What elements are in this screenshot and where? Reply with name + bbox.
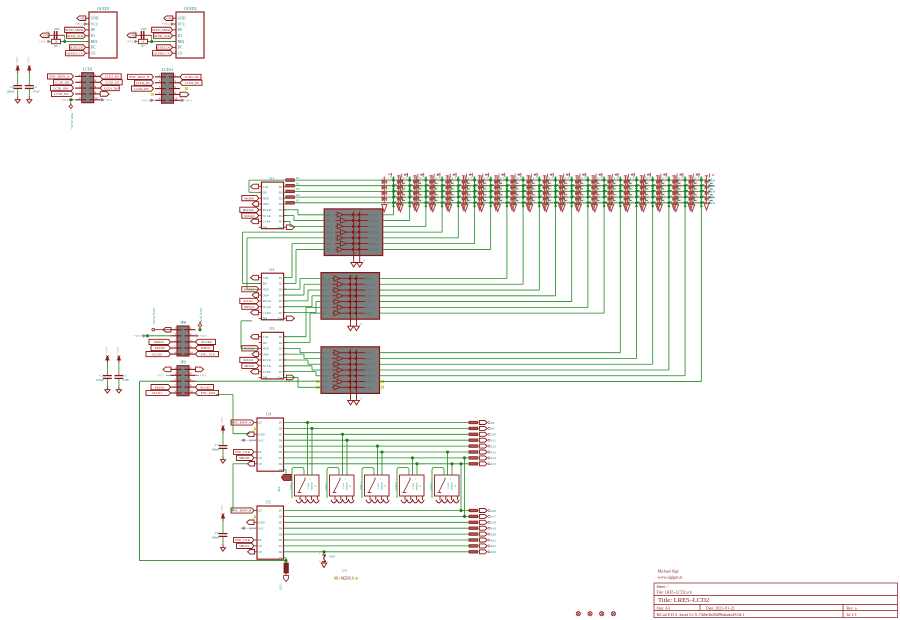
svg-text:D2: D2: [279, 341, 283, 345]
svg-text:LCD1_RW: LCD1_RW: [53, 86, 69, 90]
svg-text:+3V3: +3V3: [157, 374, 164, 377]
global label row R18: [478, 521, 480, 523]
resistor R22: [469, 545, 478, 548]
gnd arrow U2 row1: [251, 275, 259, 280]
LED matrix right edge labels: [704, 178, 716, 205]
svg-text:OUT_5: OUT_5: [369, 236, 379, 240]
svg-text:U3: U3: [269, 326, 274, 331]
svg-text:R12: R12: [490, 444, 496, 448]
wire LED column 4 to driver output: [441, 207, 443, 233]
svg-text:SCLK0: SCLK0: [244, 214, 254, 218]
global label ENC_CLK: [234, 449, 255, 454]
global label row R21: [478, 539, 480, 541]
global label LCDe1 pin1: [128, 74, 154, 79]
svg-text:D2: D2: [279, 282, 283, 286]
svg-text:OUT_2: OUT_2: [369, 219, 379, 223]
wire LED column 17 to driver output: [652, 207, 654, 365]
svg-text:OUT_3: OUT_3: [366, 288, 376, 292]
resistor R9: [469, 427, 478, 430]
svg-text:OUT_1: OUT_1: [366, 351, 376, 355]
wire U2 D6 to U7 IN4: [284, 306, 312, 308]
svg-text:D5: D5: [279, 358, 283, 362]
svg-text:OLED1_CS: OLED1_CS: [66, 51, 82, 55]
wire ENC5 A to bus: [447, 452, 449, 475]
vss arrow U3: [286, 375, 294, 380]
svg-text:MOSI0: MOSI0: [244, 196, 254, 200]
wire encoder column to R16 row: [460, 464, 462, 511]
svg-text:R17: R17: [490, 515, 496, 519]
svg-text:Vdd: Vdd: [263, 276, 269, 280]
svg-text:OUT_4: OUT_4: [369, 230, 379, 234]
jumper H1: [322, 550, 325, 553]
shift register U2: [261, 273, 283, 320]
svg-text:OUT_2: OUT_2: [366, 357, 376, 361]
wire U2 D5 to U7 IN3: [284, 300, 308, 302]
svg-text:GND: GND: [178, 17, 186, 21]
resistor R18: [469, 521, 478, 524]
wire ENC4 bridge: [397, 468, 409, 499]
svg-text:MISO1: MISO1: [201, 346, 211, 350]
arrow U1 OE: [252, 202, 259, 207]
arrow JP9 pin1: [163, 367, 171, 372]
global label JP8 pin8: [196, 345, 214, 350]
svg-text:U10: U10: [342, 569, 348, 573]
global label JP9 pin10: [196, 390, 219, 395]
svg-text:LCD2_EN: LCD2_EN: [134, 87, 149, 91]
svg-text:R2: R2: [296, 182, 300, 186]
svg-text:R23: R23: [490, 550, 496, 554]
global label ENC_ROW_A: [231, 420, 254, 425]
svg-text:SER: SER: [263, 196, 270, 200]
svg-text:OUT_1: OUT_1: [369, 213, 379, 217]
svg-text:Vss: Vss: [278, 376, 284, 380]
svg-text:IN_6: IN_6: [323, 306, 330, 310]
svg-text:OUT_7: OUT_7: [366, 311, 376, 315]
svg-text:IN_3: IN_3: [323, 362, 330, 366]
no-connect U5: [254, 515, 257, 518]
power +3V3 C7: [222, 428, 224, 433]
svg-text:SHLD1: SHLD1: [239, 544, 250, 548]
svg-text:CLR#: CLR#: [263, 311, 271, 315]
wire JP9 pin6 long net right: [196, 380, 322, 382]
wire U1 D5 to U6 IN1: [284, 209, 298, 211]
svg-text:OLED_MOSI: OLED_MOSI: [152, 28, 171, 32]
svg-text:D7: D7: [279, 370, 283, 374]
svg-text:OUT_3: OUT_3: [369, 224, 379, 228]
svg-text:R8: R8: [490, 421, 494, 425]
svg-text:Rev: a: Rev: a: [847, 606, 857, 610]
LED matrix column 20: [689, 173, 715, 212]
svg-text:100nF: 100nF: [6, 89, 14, 93]
wire U4 D7 bus: [284, 422, 470, 424]
ground C4: [17, 97, 19, 100]
svg-text:D6: D6: [279, 364, 283, 368]
wire chain to U6 IN5: [247, 237, 324, 239]
global label row R15: [478, 463, 480, 465]
ground C3: [106, 387, 108, 390]
svg-text:ENC_ROW_B: ENC_ROW_B: [232, 509, 253, 513]
svg-text:OUT_7: OUT_7: [369, 248, 379, 252]
LED matrix column 8: [494, 173, 520, 212]
wire JP9 pin5 long net: [140, 380, 171, 382]
svg-text:Size: A3: Size: A3: [657, 606, 670, 610]
mounting hole H3: [588, 612, 592, 616]
svg-text:Cx9: Cx9: [423, 176, 428, 179]
svg-text:SHLD0: SHLD0: [239, 456, 250, 460]
wire U3 D4 to U8 IN2: [284, 353, 304, 355]
shift register U4: [257, 418, 284, 471]
capacitor C2 47uF: [28, 73, 30, 85]
wire R1 jog from U1 D0: [249, 179, 286, 181]
svg-text:MISO1: MISO1: [244, 305, 254, 309]
svg-text:D1: D1: [279, 185, 283, 189]
svg-text:Vdd: Vdd: [263, 185, 269, 189]
ground C8: [222, 545, 224, 548]
wire U5 D0 bus: [284, 551, 470, 553]
wire encoder column to R17 row: [464, 458, 466, 517]
svg-text:+3V3: +3V3: [162, 22, 169, 26]
wire LED column 5 to driver output: [457, 207, 459, 238]
svg-text:D4: D4: [279, 293, 283, 297]
wire U4 D4 bus: [284, 439, 470, 441]
svg-text:+3V3: +3V3: [200, 374, 207, 377]
svg-text:+3V3: +3V3: [200, 335, 207, 338]
LED matrix column 4: [429, 173, 455, 212]
rotary encoder ENC2: [324, 475, 354, 503]
wire U3 D5 to U8 IN3: [284, 359, 308, 361]
svg-text:IN_5: IN_5: [323, 374, 330, 378]
svg-text:PWR_FLAG: PWR_FLAG: [152, 308, 156, 325]
wire row bus R2: [294, 185, 706, 187]
wire U4 D5 bus: [284, 433, 470, 435]
svg-text:IN_5: IN_5: [326, 236, 333, 240]
wire U4 D0 bus: [284, 463, 470, 465]
title block text: [657, 569, 857, 617]
svg-text:IN_7: IN_7: [323, 385, 330, 389]
LED matrix column 12: [559, 173, 585, 212]
svg-text:D7: D7: [279, 220, 283, 224]
svg-text:DC: DC: [91, 46, 97, 50]
global label row R12: [478, 445, 480, 447]
wire ENC2 bridge: [327, 468, 339, 499]
capacitor C4 100nF: [17, 73, 19, 85]
global label SHLD1: [237, 543, 255, 548]
svg-text:Cx9: Cx9: [552, 176, 557, 179]
shift register U1: [261, 182, 283, 229]
wire U4 D3 bus: [284, 445, 470, 447]
LED matrix column 6: [462, 173, 488, 212]
wire RES R6: [61, 41, 90, 43]
junction LCD1: [69, 98, 72, 101]
svg-text:Dx19: Dx19: [709, 178, 716, 182]
svg-text:Q7: Q7: [258, 421, 262, 425]
wire U1 D6 to U6 IN2: [284, 215, 294, 217]
svg-text:KiCad E.D.A. kicad 5.1.9–73d0: KiCad E.D.A. kicad 5.1.9–73d0e3b20d88ubu…: [657, 613, 745, 617]
svg-text:LCD1: LCD1: [83, 67, 93, 72]
wire LED column 16 to driver output: [636, 207, 638, 359]
global label MOSI0: [242, 196, 259, 201]
wire U3 D2 to U7 IN7: [284, 342, 310, 344]
svg-text:100nF: 100nF: [211, 447, 219, 451]
svg-text:D7: D7: [279, 421, 283, 425]
svg-text:D5: D5: [279, 521, 283, 525]
power flag LCD1: [70, 102, 72, 104]
svg-text:SER: SER: [263, 287, 270, 291]
junction U5 output bottom: [284, 557, 287, 559]
power +3V3 U4: [241, 439, 246, 441]
wire LED column 15 to driver output: [619, 207, 621, 353]
LED matrix column 9: [510, 173, 536, 212]
resistor R12: [469, 445, 478, 448]
global label LCD1 pin6: [100, 86, 119, 91]
capacitor C3 100nF: [106, 363, 108, 375]
global label SCLK0: [242, 213, 259, 218]
svg-text:R11: R11: [490, 438, 496, 442]
svg-text:R21: R21: [490, 538, 496, 542]
svg-text:RES: RES: [178, 40, 185, 44]
svg-text:Cx9: Cx9: [471, 176, 476, 179]
gnd arrow U1 row7: [251, 219, 259, 224]
svg-text:Cx9: Cx9: [666, 176, 671, 179]
power +3V3 LCD1 pin10: [100, 99, 104, 101]
ground C7: [222, 457, 224, 460]
svg-text:R24: R24: [278, 486, 281, 491]
svg-text:LCD1_EN: LCD1_EN: [54, 92, 69, 96]
wire U1 output to R2: [285, 186, 288, 188]
svg-text:ENC2: ENC2: [324, 482, 328, 490]
wire ENC1 A to bus: [307, 423, 309, 476]
svg-text:IN_1: IN_1: [323, 277, 330, 281]
svg-text:OLED_MOSI: OLED_MOSI: [65, 28, 84, 32]
svg-text:Dx19: Dx19: [709, 190, 716, 194]
svg-text:Cx9: Cx9: [536, 176, 541, 179]
global label RCLK2: [242, 346, 259, 351]
svg-text:IN_1: IN_1: [326, 213, 333, 217]
svg-text:Michael Sigl: Michael Sigl: [658, 569, 680, 574]
global label OLED_MOSI: [152, 27, 173, 32]
svg-text:OLED_SCK: OLED_SCK: [67, 34, 84, 38]
connector JP9: [177, 366, 189, 396]
global label LCDe1 pin4: [180, 80, 202, 85]
svg-text:CLR#: CLR#: [263, 370, 271, 374]
svg-text:RCLK0: RCLK0: [201, 340, 212, 344]
svg-text:D0: D0: [91, 28, 96, 32]
svg-text:IN_4: IN_4: [323, 294, 330, 298]
wire LED column 18 to driver output: [668, 207, 670, 371]
svg-text:R3: R3: [296, 187, 300, 191]
svg-text:D2: D2: [279, 191, 283, 195]
svg-text:File: LRE5–LCD2.sch: File: LRE5–LCD2.sch: [657, 591, 692, 595]
svg-text:Cx9: Cx9: [487, 176, 492, 179]
svg-text:SCLK: SCLK: [263, 364, 272, 368]
resistor R7 1K: [139, 39, 148, 43]
wire U4 D1 bus: [284, 457, 470, 459]
wire U1 output to R5: [285, 203, 288, 205]
wire LED column 12 to driver output: [571, 207, 573, 302]
svg-text:D3: D3: [279, 444, 283, 448]
svg-text:OLED2: OLED2: [184, 6, 197, 11]
resistor R13: [469, 451, 478, 454]
svg-text:+3V3: +3V3: [61, 98, 68, 102]
global label RCLK1: [242, 287, 259, 292]
wire LED column 11 to driver output: [555, 207, 557, 296]
wire U2 D2 to U6 IN7: [284, 282, 296, 284]
global label OLED_SCK: [154, 33, 173, 38]
svg-text:R20: R20: [490, 532, 496, 536]
svg-text:D4: D4: [279, 526, 283, 530]
svg-text:C2: C2: [33, 85, 37, 89]
power +3V3 C3: [106, 358, 108, 363]
svg-text:OLED_DC: OLED_DC: [69, 46, 85, 50]
resistor R25: [285, 561, 287, 563]
svg-text:C4: C4: [10, 85, 14, 89]
svg-text:R18: R18: [490, 521, 496, 525]
svg-text:SCLK: SCLK: [263, 305, 272, 309]
wire RES R7: [148, 41, 177, 43]
vss arrow U1: [286, 225, 294, 230]
svg-text:Sheet: /: Sheet: /: [657, 585, 670, 589]
svg-text:Cx9: Cx9: [633, 176, 638, 179]
svg-text:D3: D3: [279, 287, 283, 291]
svg-text:GND: GND: [167, 17, 173, 20]
resistor R19: [469, 527, 478, 530]
power +3V3 U5: [241, 527, 246, 529]
global label RCLK0: [240, 207, 259, 212]
svg-text:ENC_DAT: ENC_DAT: [201, 391, 216, 395]
svg-text:OUT_6: OUT_6: [369, 242, 379, 246]
darlington array U7: [321, 273, 380, 320]
wire LED column 2 to driver output: [409, 207, 411, 221]
svg-text:CS: CS: [178, 52, 183, 56]
svg-text:COM: COM: [352, 369, 355, 376]
svg-text:D6: D6: [279, 305, 283, 309]
wire ENC5 bridge: [432, 468, 444, 499]
svg-text:D2: D2: [279, 538, 283, 542]
power +3V3 JP9 pin4: [196, 374, 200, 376]
svg-text:VCC: VCC: [91, 22, 99, 26]
gnd arrow U1 row1: [251, 184, 259, 189]
svg-text:D3: D3: [279, 196, 283, 200]
resistor R3: [286, 190, 295, 193]
svg-text:Dx19: Dx19: [709, 184, 716, 188]
rotary encoder ENC4: [394, 475, 424, 503]
svg-text:IN_7: IN_7: [326, 248, 333, 252]
global label SHLD0: [237, 455, 255, 460]
svg-text:OUT_6: OUT_6: [366, 380, 376, 384]
svg-text:R13: R13: [490, 450, 496, 454]
gnd arrows U7: [348, 326, 354, 331]
wire ENC3 B to bus: [381, 452, 383, 475]
arrow U5 CE: [248, 550, 255, 555]
svg-text:R22: R22: [490, 544, 496, 548]
svg-text:D1: D1: [279, 335, 283, 339]
global label OLED_DC: [157, 45, 173, 50]
global label JP8 pin6: [196, 339, 216, 344]
svg-text:Vss: Vss: [278, 225, 284, 229]
svg-text:C3: C3: [99, 373, 103, 377]
svg-text:SER: SER: [263, 347, 270, 351]
wire row bus R3: [294, 190, 706, 192]
wire ENC5 B to bus: [451, 464, 453, 475]
svg-text:Dx19: Dx19: [709, 195, 716, 199]
svg-text:PE: PE: [258, 450, 262, 454]
svg-text:Cx9: Cx9: [455, 176, 460, 179]
arrow label R25 net: [284, 576, 289, 582]
wire U3 Vss to U8 IN7: [284, 376, 298, 378]
svg-text:LCD2_RS: LCD2_RS: [136, 81, 150, 85]
svg-text:IN_3: IN_3: [326, 224, 333, 228]
svg-text:LCD1_D6: LCD1_D6: [104, 86, 118, 90]
power +3V3 C8: [222, 516, 224, 521]
svg-text:R10: R10: [490, 433, 496, 437]
svg-text:JP8: JP8: [180, 320, 186, 325]
arrow U4 CE: [248, 462, 255, 467]
resistor R8: [469, 421, 478, 424]
svg-text:Cx9: Cx9: [520, 176, 525, 179]
svg-text:OUT_3: OUT_3: [366, 362, 376, 366]
svg-text:VCC: VCC: [178, 22, 186, 26]
wire LED column 8 to driver output: [506, 207, 508, 279]
svg-text:DB: DB: [263, 376, 268, 380]
svg-text:IN_3: IN_3: [323, 288, 330, 292]
svg-text:D0: D0: [263, 191, 267, 195]
global label LCD1 pin2: [100, 74, 121, 79]
power +3V3 C4: [17, 68, 19, 73]
svg-text:Id: 1/1: Id: 1/1: [847, 613, 857, 617]
svg-text:ENC_ROW_A: ENC_ROW_A: [231, 421, 252, 425]
svg-text:COM: COM: [352, 295, 355, 302]
global label LCD1 pin5: [51, 86, 74, 91]
svg-text:U2: U2: [269, 267, 274, 272]
global label MISO1: [242, 304, 259, 309]
svg-text:VCC: VCC: [258, 438, 264, 442]
svg-text:A: A: [380, 478, 382, 481]
wire U5 D1 bus: [284, 545, 470, 547]
mounting hole H4: [600, 612, 604, 616]
svg-text:R19: R19: [490, 526, 496, 530]
global label row R14: [478, 457, 480, 459]
svg-text:R16: R16: [490, 509, 496, 513]
svg-text:Cx9: Cx9: [601, 176, 606, 179]
svg-text:JP9: JP9: [180, 360, 186, 365]
global label JP8 pin5: [149, 339, 171, 344]
svg-text:D6: D6: [279, 427, 283, 431]
svg-text:U5: U5: [266, 500, 271, 505]
svg-text:CP: CP: [258, 544, 262, 548]
svg-text:CLR#: CLR#: [263, 220, 271, 224]
global label JP8 pin10: [196, 352, 219, 357]
power arrow LCDe1 pin8: [180, 92, 189, 97]
LED matrix column 5: [446, 173, 472, 212]
wire U5 D7 bus: [284, 510, 470, 512]
LED matrix column 19: [672, 173, 698, 212]
connector LCD1: [82, 73, 94, 103]
svg-text:OUT_4: OUT_4: [366, 368, 376, 372]
resistor R23: [469, 551, 478, 554]
svg-text:OUT_1: OUT_1: [366, 277, 376, 281]
svg-text:OUT_7: OUT_7: [366, 385, 376, 389]
gnd arrow U3 row1: [251, 334, 259, 339]
junction R7: [150, 40, 153, 43]
arrow U3 OE: [252, 352, 259, 357]
svg-text:COM: COM: [355, 231, 358, 238]
svg-text:D3: D3: [279, 347, 283, 351]
global label LCD1 pin1: [48, 74, 74, 79]
svg-text:R15: R15: [490, 462, 496, 466]
svg-text:ENC_CLK: ENC_CLK: [235, 450, 250, 454]
power arrow LCD1 pin8: [100, 92, 109, 97]
svg-text:+3V3: +3V3: [116, 346, 120, 353]
